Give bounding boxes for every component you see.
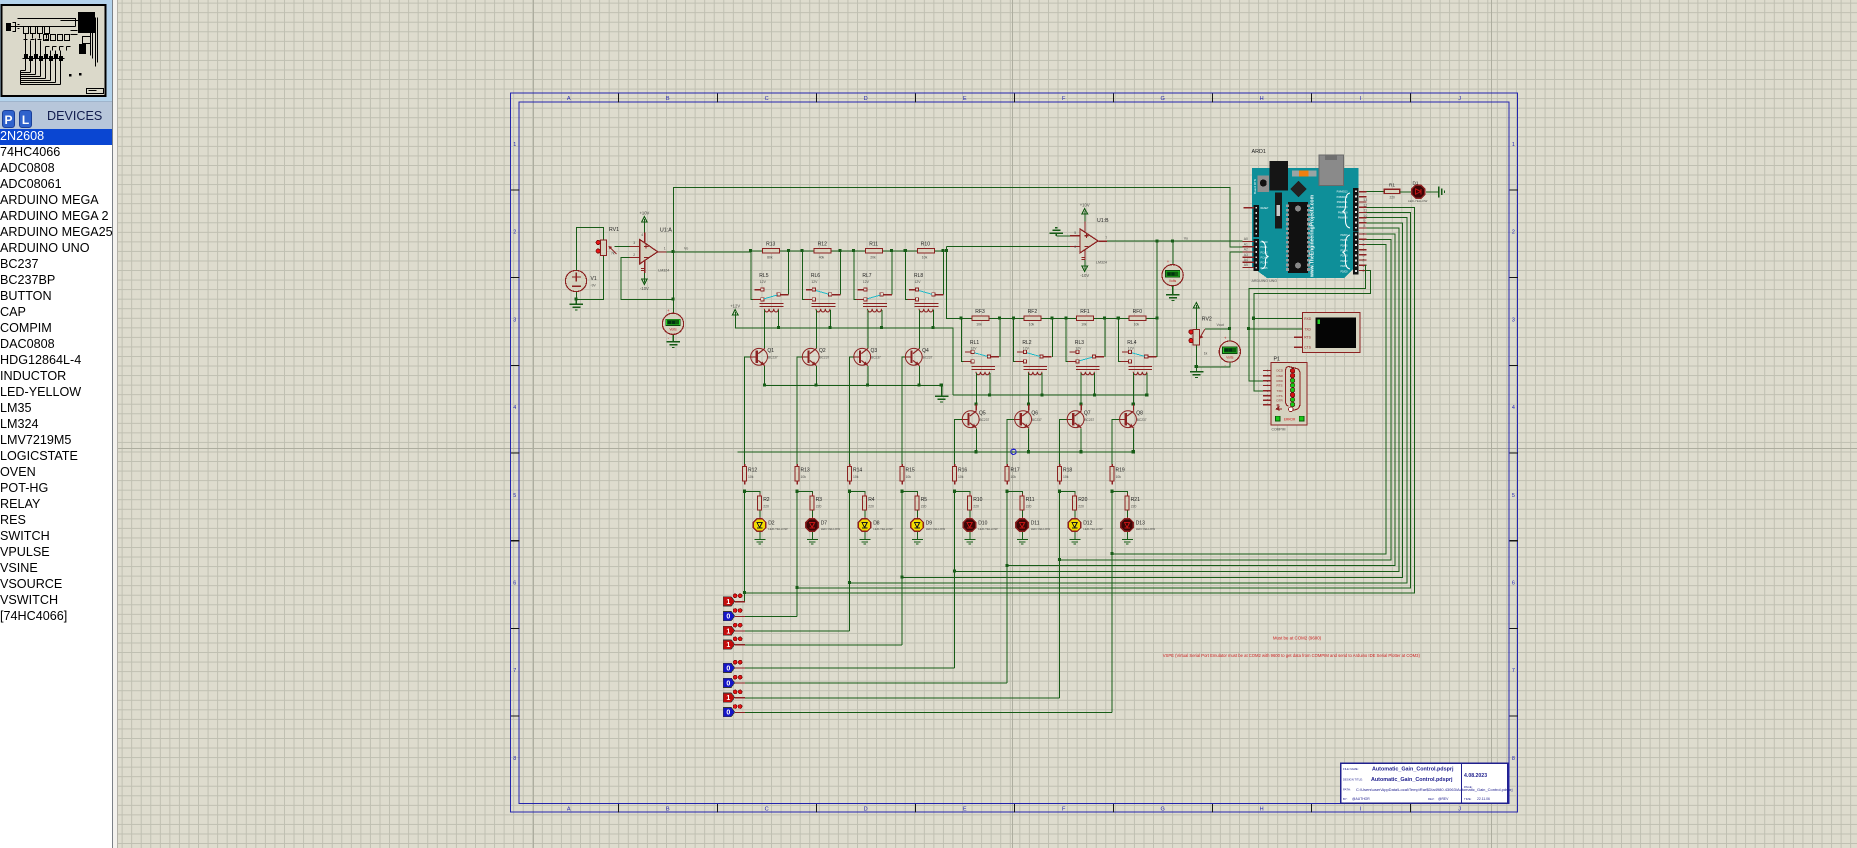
svg-text:12V: 12V — [811, 280, 818, 284]
svg-text:R13: R13 — [766, 242, 775, 248]
svg-text:REV:: REV: — [1428, 797, 1435, 801]
svg-text:2: 2 — [633, 253, 635, 257]
svg-text:1: 1 — [726, 599, 730, 606]
svg-text:Must be at COM2 (9600): Must be at COM2 (9600) — [1273, 636, 1322, 641]
svg-text:22.11.06: 22.11.06 — [1477, 797, 1490, 801]
node — [890, 249, 893, 252]
wire meter2 tap — [1172, 241, 1174, 265]
wire coil right leg — [932, 310, 934, 328]
svg-text:PD/D5: PD/D5 — [1340, 244, 1348, 247]
node emitter — [814, 384, 817, 387]
node emitter — [866, 384, 869, 387]
svg-text:A: A — [567, 806, 571, 812]
wire emitter — [764, 366, 766, 386]
node collector — [1079, 403, 1082, 406]
svg-text:Vo: Vo — [684, 246, 688, 250]
node collector — [974, 403, 977, 406]
wire column to logicstate — [796, 492, 798, 617]
wire to LED — [759, 510, 761, 518]
svg-text:Q7: Q7 — [1084, 411, 1091, 417]
logicstate 1 — [723, 623, 745, 635]
node — [1064, 317, 1067, 320]
svg-text:C: C — [765, 806, 769, 812]
svg-text:A5: A5 — [1244, 263, 1248, 267]
wire RV2 bottom — [1196, 345, 1198, 372]
svg-text:D: D — [864, 806, 868, 812]
node tap — [743, 591, 746, 594]
node emitter — [763, 384, 766, 387]
transistor Q3 — [853, 348, 881, 365]
COMPIM P1 — [1267, 356, 1307, 431]
voltmeter on U1:B output — [1162, 259, 1183, 292]
svg-text:RF1: RF1 — [1080, 309, 1090, 315]
node emitter — [918, 384, 921, 387]
wire U1:B output to A0 — [1107, 240, 1243, 242]
svg-text:U1:A: U1:A — [660, 228, 672, 234]
resistor R2 — [758, 493, 770, 513]
svg-text:PWM/D8: PWM/D8 — [1338, 217, 1348, 220]
svg-text:8: 8 — [513, 756, 516, 762]
svg-text:10k: 10k — [801, 475, 807, 479]
wire D pin to column 6 — [1060, 239, 1392, 560]
wire coil left leg — [1028, 373, 1030, 405]
svg-text:Volts: Volts — [1169, 279, 1177, 283]
wire coil left leg — [918, 310, 920, 349]
wire relay RL3 left — [1066, 318, 1069, 361]
logicstate 0 — [723, 609, 745, 621]
svg-text:PWM/D12: PWM/D12 — [1337, 196, 1349, 199]
svg-text:D10: D10 — [978, 520, 987, 526]
svg-text:+12V: +12V — [730, 303, 740, 308]
wire logicstate 4 link — [745, 644, 902, 646]
svg-text:+: + — [667, 308, 670, 313]
svg-text:R3: R3 — [816, 497, 823, 503]
svg-text:F: F — [1062, 96, 1066, 102]
svg-text:C:\Users\user\AppData\Local\Te: C:\Users\user\AppData\Local\Temp\Rar$DIa… — [1356, 787, 1513, 792]
LED D11 — [1016, 517, 1050, 534]
svg-text:LED-YELLOW: LED-YELLOW — [821, 527, 841, 531]
svg-text:PD/D3: PD/D3 — [1340, 255, 1348, 258]
svg-text:RL4: RL4 — [1127, 340, 1136, 346]
svg-text:12V: 12V — [1128, 347, 1135, 351]
node RV2 gnd — [1195, 365, 1198, 368]
svg-text:1k: 1k — [1204, 352, 1208, 356]
battery V1 — [565, 270, 596, 291]
node coil-bus — [880, 326, 883, 329]
svg-text:RTS: RTS — [1277, 384, 1283, 388]
ground below voltmeter — [672, 335, 674, 342]
potentiometer RV1 — [596, 227, 619, 256]
svg-text:10k: 10k — [1029, 323, 1035, 327]
svg-text:COMPIM: COMPIM — [1272, 428, 1286, 432]
relay contact RL8 — [908, 288, 944, 301]
wire +12V coil bus — [735, 321, 952, 395]
svg-text:10k: 10k — [1063, 475, 1069, 479]
wire output down to meter — [672, 252, 674, 313]
resistor RF1 — [1077, 309, 1094, 327]
wire logicstate 3 link — [745, 630, 850, 632]
svg-text:PC/A0: PC/A0 — [1261, 241, 1269, 244]
svg-text:220: 220 — [921, 504, 927, 508]
wire to LED — [1074, 510, 1076, 518]
resistor R10 — [968, 493, 983, 513]
svg-text:D12: D12 — [1083, 520, 1092, 526]
svg-text:BC237: BC237 — [1032, 418, 1042, 422]
svg-text:PC/A3: PC/A3 — [1261, 257, 1269, 260]
svg-text:PC/A2: PC/A2 — [1261, 251, 1269, 254]
RV2 power arrow — [1194, 303, 1200, 315]
svg-text:R12: R12 — [748, 468, 757, 474]
resistor R15 — [900, 464, 915, 485]
svg-text:10k: 10k — [1011, 475, 1017, 479]
wire logicstate 2 link — [745, 615, 797, 617]
node coil-bus — [932, 326, 935, 329]
node — [852, 249, 855, 252]
relay coil RL8 — [914, 303, 938, 312]
node coil-bus2 — [1145, 393, 1148, 396]
svg-text:D2: D2 — [768, 520, 775, 526]
svg-text:R10: R10 — [921, 242, 930, 248]
wire RV1 wiper to U1:A + — [614, 245, 629, 247]
svg-text:3: 3 — [1512, 317, 1515, 323]
LED D13 — [1121, 517, 1155, 534]
svg-text:DESIGN TITLE:: DESIGN TITLE: — [1343, 778, 1363, 782]
svg-text:R1: R1 — [1389, 183, 1395, 188]
svg-text:1: 1 — [726, 695, 730, 702]
svg-text:R21: R21 — [1131, 497, 1140, 503]
logicstate 0 — [723, 705, 745, 717]
svg-text:DCD: DCD — [1277, 369, 1284, 373]
svg-text:PC/A5: PC/A5 — [1261, 267, 1269, 270]
svg-text:220: 220 — [763, 504, 769, 508]
wire base — [850, 357, 854, 466]
svg-text:RL5: RL5 — [759, 273, 768, 279]
wire base — [797, 357, 802, 466]
svg-text:ERROR: ERROR — [1284, 418, 1296, 422]
svg-text:BC237: BC237 — [1137, 418, 1147, 422]
node coil-bus2 — [1040, 393, 1043, 396]
wire D pin to column 2 — [850, 218, 1407, 583]
wire base — [1060, 419, 1067, 466]
node — [1058, 490, 1061, 493]
svg-text:A1: A1 — [1244, 242, 1248, 246]
ground under D13 — [1122, 540, 1133, 545]
wire D1 to ground — [1426, 191, 1439, 193]
svg-text:J: J — [1458, 806, 1461, 812]
svg-text:12V: 12V — [971, 347, 978, 351]
wire relay RL7 left — [854, 251, 857, 300]
svg-text:5: 5 — [1512, 493, 1515, 499]
svg-text:ARD1: ARD1 — [1252, 149, 1266, 155]
resistor RF3 — [972, 309, 989, 327]
svg-text:D: D — [864, 96, 868, 102]
wire column to logicstate — [1111, 492, 1113, 713]
wire coil left leg — [867, 310, 869, 349]
wire logicstate 6 link — [745, 682, 1007, 684]
node collector — [1027, 403, 1030, 406]
relay contact RL2 — [1016, 350, 1052, 363]
wire D pin to column 0 — [745, 207, 1415, 593]
ground right of Q4 emitter bus — [940, 384, 943, 387]
wire column to logicstate — [954, 492, 956, 669]
svg-text:J: J — [1458, 96, 1461, 102]
LED D1 — [1408, 180, 1428, 202]
svg-text:LED-YELLOW: LED-YELLOW — [1083, 527, 1103, 531]
svg-text:RL2: RL2 — [1022, 340, 1031, 346]
svg-text:Q8: Q8 — [1136, 411, 1143, 417]
svg-text:1: 1 — [726, 628, 730, 635]
wire LED to ground — [969, 532, 971, 540]
svg-text:R4: R4 — [868, 497, 875, 503]
svg-text:220: 220 — [816, 504, 822, 508]
op-amp U1:B — [1070, 222, 1107, 263]
svg-text:PWM/D13: PWM/D13 — [1337, 191, 1349, 194]
svg-text:D8: D8 — [873, 520, 880, 526]
wire LED to ground — [1021, 532, 1023, 540]
svg-text:220: 220 — [868, 504, 874, 508]
svg-text:7: 7 — [1512, 668, 1515, 674]
svg-text:G: G — [1161, 806, 1165, 812]
svg-text:Automatic_Gain_Control.pdsprj: Automatic_Gain_Control.pdsprj — [1371, 777, 1453, 783]
svg-text:TXD: TXD — [1304, 327, 1311, 331]
svg-text:PATH:: PATH: — [1343, 787, 1351, 791]
svg-text:7: 7 — [1105, 236, 1107, 240]
svg-text:0: 0 — [726, 680, 730, 687]
wire coil left leg — [1133, 373, 1135, 405]
relay coil RL6 — [811, 303, 835, 312]
logicstate 1 — [723, 594, 745, 606]
ground below voltmeter2 — [1172, 286, 1174, 295]
transistor Q6 — [1014, 411, 1042, 428]
resistor R5 — [915, 493, 927, 513]
resistor R21 — [1125, 493, 1140, 513]
svg-text:A3: A3 — [1244, 253, 1248, 257]
overview window — [0, 0, 113, 106]
pin CTS stub — [1294, 346, 1303, 348]
wire relay RL5 right — [788, 251, 790, 295]
svg-text:ARDUINO UNO: ARDUINO UNO — [1252, 279, 1278, 283]
svg-text:R19: R19 — [1116, 468, 1125, 474]
logicstate 1 — [723, 690, 745, 702]
svg-text:220: 220 — [973, 504, 979, 508]
wire U1:B + input — [1056, 235, 1070, 237]
wire to LED branch — [1112, 492, 1127, 497]
svg-text:Q6: Q6 — [1031, 411, 1038, 417]
svg-text:A0: A0 — [1244, 237, 1248, 241]
svg-text:B: B — [666, 96, 670, 102]
node feedback — [671, 297, 674, 300]
svg-text:RV2: RV2 — [1202, 317, 1212, 323]
svg-text:-9V: -9V — [591, 284, 597, 288]
svg-text:R13: R13 — [801, 468, 810, 474]
wire coil right leg — [778, 310, 780, 328]
wire emitter — [1028, 428, 1030, 452]
wire coil right leg — [1094, 373, 1096, 395]
wire column to logicstate — [1059, 492, 1061, 698]
resistor R18 — [1057, 464, 1072, 485]
svg-text:Automatic_Gain_Control.pdsprj: Automatic_Gain_Control.pdsprj — [1372, 767, 1454, 773]
wire coil right leg — [1146, 373, 1148, 395]
svg-text:A2: A2 — [1244, 248, 1248, 252]
svg-text:www.TheEngineeringProjects.com: www.TheEngineeringProjects.com — [1310, 194, 1316, 278]
svg-text:PC/A1: PC/A1 — [1261, 246, 1269, 249]
wire U1:A output — [666, 251, 750, 253]
resistor R13 — [795, 464, 810, 485]
svg-text:4: 4 — [513, 405, 516, 411]
node emitter — [1132, 450, 1135, 453]
svg-text:RXD: RXD — [1304, 317, 1312, 321]
wire wiper to A2 — [1230, 252, 1242, 329]
logicstate 0 — [723, 660, 745, 672]
wire LED to ground — [864, 532, 866, 540]
wire emitter — [1080, 428, 1082, 452]
svg-text:6: 6 — [513, 581, 516, 587]
svg-text:DTR: DTR — [1277, 398, 1284, 402]
voltmeter on RV2 wiper — [1219, 336, 1240, 369]
transistor Q8 — [1119, 411, 1147, 428]
U1:B -10V power — [1084, 262, 1086, 264]
svg-text:BC237: BC237 — [871, 355, 881, 359]
node coil-bus — [828, 326, 831, 329]
LED D10 — [963, 517, 997, 534]
svg-text:PWM/D11: PWM/D11 — [1337, 201, 1348, 204]
svg-text:5: 5 — [1074, 231, 1076, 235]
svg-text:0: 0 — [726, 614, 730, 621]
title block — [1341, 763, 1513, 803]
svg-text:RF0: RF0 — [1133, 309, 1143, 315]
wire emitter bus Q1-Q4 — [765, 384, 942, 386]
svg-text:PD/D1: PD/D1 — [1340, 265, 1348, 268]
svg-text:+: + — [1167, 259, 1170, 264]
node coil-bus2 — [1093, 393, 1096, 396]
svg-text:Q2: Q2 — [819, 348, 826, 354]
wire RV2 wiper — [1205, 328, 1230, 330]
svg-text:3: 3 — [633, 241, 635, 245]
svg-text:PC/A4: PC/A4 — [1261, 262, 1269, 265]
svg-text:-10V: -10V — [1080, 273, 1089, 278]
resistor R4 — [863, 493, 875, 513]
svg-text:BC237: BC237 — [768, 355, 778, 359]
svg-text:LED-YELLOW: LED-YELLOW — [873, 527, 893, 531]
wire relay RL3 right — [1104, 318, 1106, 356]
svg-text:Q1: Q1 — [767, 348, 774, 354]
device list — [0, 129, 112, 625]
svg-text:R17: R17 — [1011, 468, 1020, 474]
svg-text:U1:B: U1:B — [1097, 218, 1109, 224]
wire to LED branch — [955, 492, 970, 497]
node tap — [1005, 564, 1008, 567]
wire coil right leg — [1041, 373, 1043, 395]
svg-text:10k: 10k — [1116, 475, 1122, 479]
resistor R20 — [1073, 493, 1088, 513]
node tap — [1110, 552, 1113, 555]
node collector — [1132, 403, 1135, 406]
wire relay RL8 left — [906, 251, 909, 300]
svg-text:LED-YELLOW: LED-YELLOW — [926, 527, 946, 531]
svg-text:D11: D11 — [1031, 520, 1040, 526]
svg-text:RTS: RTS — [1304, 336, 1311, 340]
wire coil bus 2 — [953, 394, 1147, 396]
svg-text:RL8: RL8 — [914, 273, 923, 279]
LED D9 — [911, 517, 945, 534]
wire feedback RF0 — [1156, 241, 1158, 318]
wire column to logicstate — [744, 492, 746, 602]
node — [942, 249, 945, 252]
svg-text:12V: 12V — [863, 280, 870, 284]
relay coil RL2 — [1024, 366, 1048, 374]
node — [1110, 490, 1113, 493]
ground under D9 — [912, 540, 923, 545]
resistor R19 — [1110, 464, 1125, 485]
wire emitter — [815, 366, 817, 386]
wire relay RL2 right — [1051, 318, 1053, 356]
node — [1012, 317, 1015, 320]
wire arrow to RV2 — [1196, 313, 1198, 330]
node tap — [953, 570, 956, 573]
node tap — [1058, 558, 1061, 561]
svg-text:D9: D9 — [926, 520, 933, 526]
svg-text:RXD: RXD — [1277, 379, 1284, 383]
svg-text:220: 220 — [1026, 504, 1032, 508]
wire base — [1007, 419, 1014, 466]
wire terminal RXD — [1254, 318, 1303, 320]
svg-text:4: 4 — [641, 233, 643, 237]
resistor R13 — [763, 242, 780, 260]
wire Arduino TX pin1 to COMPIM — [1254, 270, 1371, 390]
resistor RF0 — [1129, 309, 1146, 327]
node emitter — [1027, 450, 1030, 453]
origin marker — [1011, 449, 1016, 454]
svg-text:RL6: RL6 — [811, 273, 820, 279]
wire to LED branch — [902, 492, 917, 497]
LED D12 — [1068, 517, 1102, 534]
pin RTS stub — [1294, 336, 1303, 338]
wire to LED — [864, 510, 866, 518]
wire column to logicstate — [849, 492, 851, 631]
svg-text:7: 7 — [513, 668, 516, 674]
svg-text:+10V: +10V — [639, 210, 649, 215]
relay coil RL5 — [760, 303, 784, 312]
svg-text:10k: 10k — [1134, 323, 1140, 327]
svg-text:PD/D6: PD/D6 — [1340, 239, 1348, 242]
node — [795, 490, 798, 493]
U1:A +10V power — [644, 226, 646, 232]
svg-text:220: 220 — [1078, 504, 1084, 508]
svg-text:BC237: BC237 — [1084, 418, 1094, 422]
svg-text:4: 4 — [1512, 405, 1515, 411]
svg-text:10k: 10k — [906, 475, 912, 479]
node — [838, 249, 841, 252]
svg-text:6: 6 — [1074, 245, 1076, 249]
wire to LED branch — [797, 492, 812, 497]
node wiper — [1228, 327, 1231, 330]
svg-text:R20: R20 — [1078, 497, 1087, 503]
resistor R10 — [917, 242, 934, 260]
svg-text:VSPE (Virtual Serial Port Emul: VSPE (Virtual Serial Port Emulator must … — [1163, 653, 1421, 658]
svg-text:F: F — [1062, 806, 1066, 812]
svg-text:40k: 40k — [819, 255, 825, 259]
wire to LED branch — [850, 492, 865, 497]
svg-text:R2: R2 — [763, 497, 770, 503]
wire relay RL6 left — [802, 251, 805, 300]
svg-text:BC237: BC237 — [923, 355, 933, 359]
node tap — [900, 575, 903, 578]
wire base — [955, 419, 962, 466]
svg-text:PWM/D10: PWM/D10 — [1337, 206, 1349, 209]
svg-text:8: 8 — [1512, 756, 1515, 762]
relay contact RL1 — [963, 350, 999, 363]
node — [998, 317, 1001, 320]
